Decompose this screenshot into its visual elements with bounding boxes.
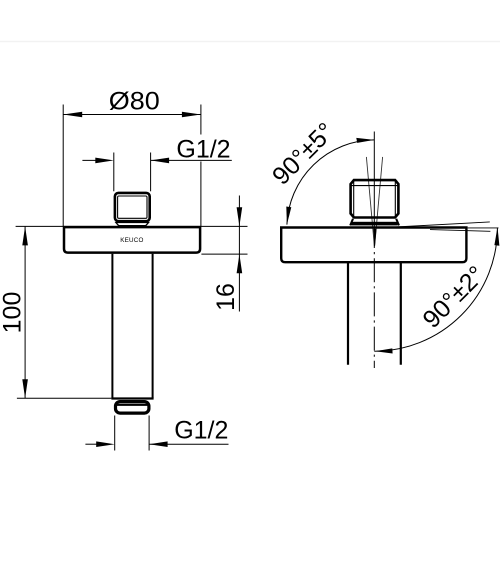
fitting nut side view [351, 180, 399, 217]
collar dark band [352, 222, 398, 226]
pipe front left wall [111, 254, 113, 398]
arrow 100 bottom [22, 379, 28, 398]
svg-text:G1/2: G1/2 [176, 136, 230, 164]
extension line G1/2 bottom right [148, 416, 150, 451]
pipe side left wall [347, 263, 349, 365]
svg-text:90°±5°: 90°±5° [267, 117, 340, 190]
dimension G1/2 bottom leader left [85, 443, 101, 445]
pipe front bottom edge [111, 397, 153, 399]
bottom thread connector [116, 402, 149, 414]
extension line Ø80 left [62, 105, 64, 227]
extension line 16 lower [201, 253, 247, 255]
svg-text:90°±2°: 90°±2° [417, 261, 490, 334]
svg-text:KEUCO: KEUCO [120, 237, 143, 244]
collar side view right edge [396, 219, 399, 226]
dimension G1/2 bottom leader right with underline [149, 443, 228, 445]
arrow arc 90±2 bottom [375, 348, 393, 353]
arrow 16 top [237, 207, 243, 226]
arrow Ø80 left [63, 112, 82, 118]
arrow G1/2 bottom right [149, 441, 168, 447]
flange side view [281, 228, 466, 263]
arrow Ø80 right [182, 112, 201, 118]
dimension G1/2 top leader left [82, 159, 100, 161]
pipe front right wall [152, 254, 154, 398]
flange plane tolerance line up [387, 222, 490, 228]
svg-text:G1/2: G1/2 [174, 417, 228, 445]
fitting nut side inner top line [351, 185, 398, 187]
flange plane tolerance line down [430, 230, 490, 232]
arc 90±5 [287, 140, 374, 225]
dimension 16 leader vertical [238, 196, 240, 312]
arrow arc 90±5 top [356, 138, 374, 143]
fitting nut front view [115, 193, 150, 221]
arrow G1/2 top left [95, 158, 114, 164]
bottom thread connector inner line [117, 404, 148, 406]
extension line 100 bottom [17, 397, 112, 399]
arc 90±2 [374, 228, 497, 351]
arrow 16 bottom [237, 254, 243, 273]
tolerance fan line right [375, 157, 383, 246]
fitting center tab [128, 225, 136, 228]
arrow G1/2 bottom left [96, 441, 115, 447]
flange front view [64, 227, 200, 253]
arrow arc 90±2 top [494, 227, 499, 246]
extension line Ø80 right (gap for G1/2 text) [200, 105, 202, 135]
arrow G1/2 top right [151, 158, 170, 164]
centerline side view [373, 132, 375, 249]
tolerance fan line left [366, 157, 374, 246]
dimension 100 line [24, 226, 26, 398]
fitting nut side inner right line [394, 181, 396, 217]
tolerance fan wedge [373, 229, 376, 247]
faint page rule [0, 41, 500, 43]
extension line G1/2 top left [113, 153, 115, 192]
fitting nut side inner left line [353, 181, 355, 217]
pipe side right wall [400, 263, 402, 365]
extension line flange top (long thin) [16, 225, 248, 227]
fitting skirt [116, 223, 149, 226]
fitting nut inner outline [118, 196, 147, 218]
svg-text:16: 16 [212, 283, 240, 311]
arrow 100 top [22, 226, 28, 245]
flange plane line 0deg [468, 227, 499, 229]
arrow arc 90±5 bottom [286, 207, 291, 225]
collar side view left edge [350, 219, 353, 226]
svg-text:Ø80: Ø80 [109, 87, 160, 115]
dimension G1/2 top leader right with underline [151, 159, 232, 161]
extension line G1/2 bottom left [114, 416, 116, 451]
svg-text:100: 100 [0, 292, 26, 334]
extension line G1/2 top right [150, 153, 152, 192]
dimension Ø80 line [63, 114, 201, 116]
